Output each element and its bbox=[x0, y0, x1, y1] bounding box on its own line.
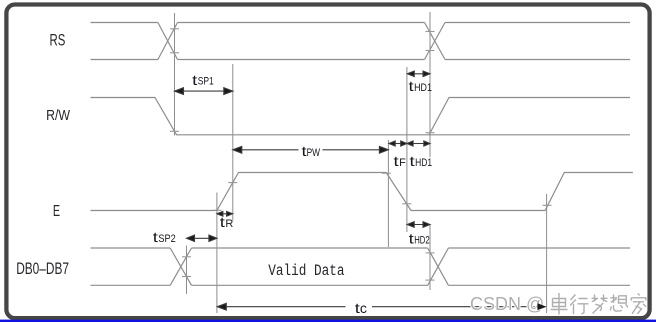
svg-text:t: t bbox=[410, 153, 415, 169]
svg-text:t: t bbox=[409, 231, 414, 247]
svg-text:F: F bbox=[399, 157, 406, 169]
svg-text:SP1: SP1 bbox=[198, 76, 214, 88]
svg-text:PW: PW bbox=[307, 147, 321, 159]
svg-text:E: E bbox=[53, 203, 60, 220]
svg-text:t: t bbox=[192, 72, 197, 88]
svg-text:HD1: HD1 bbox=[414, 82, 432, 94]
svg-text:R/W: R/W bbox=[46, 107, 71, 124]
svg-text:c: c bbox=[360, 300, 367, 316]
svg-text:t: t bbox=[220, 214, 225, 230]
svg-text:SP2: SP2 bbox=[158, 233, 175, 245]
svg-text:t: t bbox=[394, 153, 399, 169]
svg-text:HD1: HD1 bbox=[415, 157, 432, 169]
svg-text:HD2: HD2 bbox=[414, 234, 430, 246]
svg-text:t: t bbox=[153, 229, 158, 245]
svg-text:RS: RS bbox=[50, 30, 66, 49]
svg-text:DB0–DB7: DB0–DB7 bbox=[16, 260, 69, 278]
svg-text:CSDN @: CSDN @ bbox=[470, 294, 544, 314]
svg-text:t: t bbox=[409, 78, 414, 94]
svg-text:Valid Data: Valid Data bbox=[268, 262, 344, 280]
svg-text:R: R bbox=[225, 218, 233, 230]
